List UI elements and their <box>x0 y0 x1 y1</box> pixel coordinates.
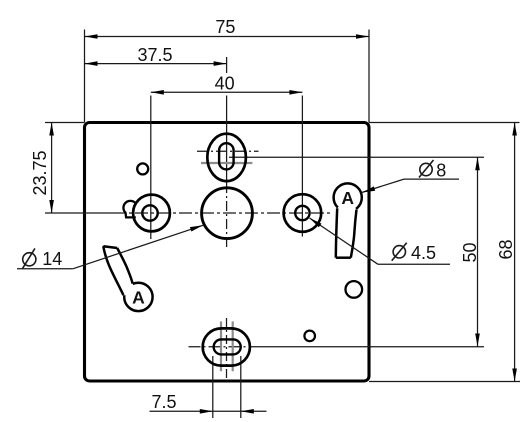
svg-text:A: A <box>132 287 145 307</box>
svg-text:A: A <box>341 188 354 208</box>
svg-text:8: 8 <box>436 160 446 180</box>
svg-text:37.5: 37.5 <box>137 45 172 65</box>
svg-text:23.75: 23.75 <box>30 150 50 195</box>
svg-text:7.5: 7.5 <box>151 392 176 412</box>
svg-text:4.5: 4.5 <box>411 243 436 263</box>
svg-text:68: 68 <box>496 239 516 259</box>
svg-text:40: 40 <box>215 74 235 94</box>
svg-text:14: 14 <box>42 249 62 269</box>
svg-text:75: 75 <box>215 17 235 37</box>
svg-text:50: 50 <box>460 242 480 262</box>
